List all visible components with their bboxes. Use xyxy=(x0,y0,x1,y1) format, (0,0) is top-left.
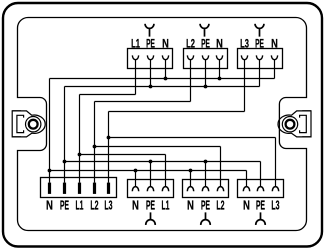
svg-text:L3: L3 xyxy=(240,38,249,50)
svg-text:L1: L1 xyxy=(76,198,84,212)
svg-text:L2: L2 xyxy=(90,198,98,212)
svg-text:PE: PE xyxy=(201,198,210,212)
svg-text:N: N xyxy=(243,198,250,212)
svg-text:L1: L1 xyxy=(162,198,170,212)
svg-text:N: N xyxy=(46,198,53,212)
svg-text:N: N xyxy=(187,198,194,212)
svg-text:N: N xyxy=(216,38,223,50)
svg-text:L3: L3 xyxy=(271,198,279,212)
svg-text:PE: PE xyxy=(255,38,264,50)
svg-text:PE: PE xyxy=(256,198,265,212)
svg-text:N: N xyxy=(132,198,139,212)
svg-text:PE: PE xyxy=(146,38,155,50)
svg-text:L2: L2 xyxy=(186,38,195,50)
svg-text:L1: L1 xyxy=(131,38,140,50)
svg-text:N: N xyxy=(271,38,278,50)
svg-text:N: N xyxy=(162,38,169,50)
svg-text:L3: L3 xyxy=(104,198,112,212)
svg-text:PE: PE xyxy=(201,38,210,50)
svg-text:PE: PE xyxy=(60,198,69,212)
svg-text:PE: PE xyxy=(146,198,155,212)
svg-text:L2: L2 xyxy=(216,198,224,212)
